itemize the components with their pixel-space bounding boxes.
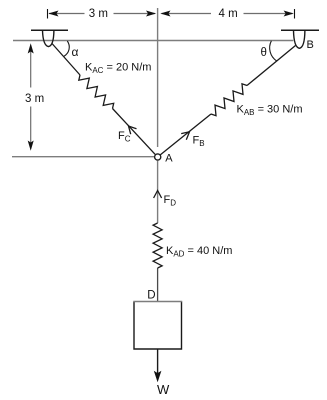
svg-text:θ: θ	[261, 47, 267, 59]
spring K_AB upper lead wire	[247, 46, 296, 86]
dimension 3 m (left vertical, shaft upper segment)	[30, 46, 32, 88]
weight W arrowhead	[154, 371, 162, 383]
svg-text:α: α	[72, 45, 79, 59]
weight W arrow shaft	[157, 349, 159, 377]
dimension 3 m (top, shaft left segment)	[49, 13, 85, 15]
svg-text:B: B	[307, 39, 314, 51]
force F_B arrowhead	[181, 132, 189, 140]
svg-text:3 m: 3 m	[25, 93, 44, 105]
support C (top-left anchor bar)	[31, 29, 68, 31]
svg-text:D: D	[147, 290, 155, 302]
force F_D arrowhead	[154, 191, 162, 199]
node A circle	[155, 154, 161, 160]
spring K_AB lower lead wire	[160, 114, 211, 155]
svg-text:3 m: 3 m	[89, 8, 108, 20]
mass block top edge	[133, 301, 182, 303]
dimension 3 m (top, shaft right segment)	[114, 13, 156, 15]
spring K_AB coil	[211, 84, 247, 116]
dimension 3 m (top, extension tick)	[47, 9, 49, 19]
dimension 3 m (top, left arrowhead)	[48, 11, 58, 17]
spring K_AC upper lead wire	[52, 44, 80, 76]
dimension 3 m (top, right arrowhead)	[146, 11, 156, 17]
dimension 4 m (top, left arrowhead)	[160, 11, 170, 17]
dimension 4 m (top, shaft right segment)	[244, 13, 293, 15]
dimension 3 m (left vertical, bottom arrowhead)	[28, 141, 34, 151]
svg-text:4 m: 4 m	[219, 8, 238, 20]
support C (hanger loop)	[43, 31, 54, 47]
svg-text:A: A	[165, 153, 173, 165]
dimension 3 m (left vertical, top arrowhead)	[28, 43, 34, 53]
floor reference line at node A level	[12, 156, 154, 158]
ceiling reference line	[13, 40, 293, 42]
dimension 3 m (left vertical, shaft lower segment)	[30, 107, 32, 148]
wire from node A down to spring AD	[157, 161, 159, 223]
wire from spring AD down to mass block at D	[157, 268, 159, 301]
dimension 4 m (top, extension tick)	[294, 9, 296, 19]
center reference line (between 3 m and 4 m dimensions)	[157, 8, 159, 147]
spring K_AC coil	[79, 75, 114, 109]
support B (hanger loop)	[294, 31, 305, 49]
mass block	[134, 302, 182, 350]
spring K_AD coil	[153, 223, 162, 268]
svg-text:W: W	[157, 382, 170, 397]
force F_C arrowhead	[129, 126, 137, 134]
angle alpha arc	[64, 41, 69, 56]
dimension 4 m (top, shaft left segment)	[162, 13, 212, 15]
angle theta arc	[270, 41, 277, 61]
dimension 4 m (top, right arrowhead)	[284, 11, 294, 17]
spring K_AC lower lead wire	[113, 109, 156, 155]
support B (top-right anchor bar)	[281, 29, 319, 31]
